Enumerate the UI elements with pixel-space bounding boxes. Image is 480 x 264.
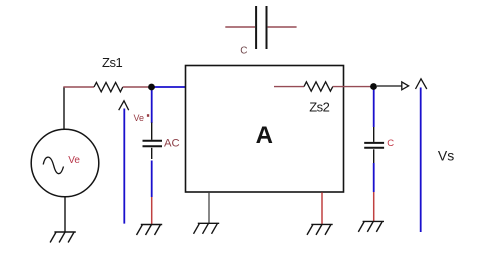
op-amp block A: [186, 66, 344, 193]
sine wave inside source: [43, 157, 63, 174]
ground (below capacitor AC): [137, 225, 163, 236]
ground (amplifier right): [307, 224, 333, 235]
ground (amplifier left): [194, 223, 220, 234]
node output junction dot: [370, 83, 377, 90]
resistor Zs2: [304, 82, 333, 91]
wire AC to ground lower segment (red): [151, 197, 153, 225]
wire output node down to capacitor c (blue): [373, 87, 375, 127]
label Ve': [134, 113, 150, 123]
svg-text:Ve: Ve: [68, 155, 80, 166]
wire top capacitor left lead: [225, 26, 255, 28]
capacitor C top plates: [256, 6, 266, 49]
wire node down to capacitor AC (blue): [151, 87, 153, 123]
svg-text:AC: AC: [164, 137, 180, 149]
wire capacitor c to ground upper segment (blue): [373, 163, 375, 192]
svg-text:C: C: [387, 138, 394, 149]
wire source vertical to Zs1 level: [63, 87, 65, 130]
ground (below capacitor c): [358, 221, 384, 232]
svg-text:Zs1: Zs1: [102, 55, 122, 70]
voltage source Ve circle: [31, 129, 99, 197]
wire node to amplifier input (blue): [152, 86, 186, 88]
capacitor c upper lead (black): [373, 127, 375, 142]
wire source to Zs1: [63, 86, 94, 88]
resistor Zs1: [94, 82, 123, 91]
capacitor c lower lead (black): [373, 149, 375, 163]
wire top capacitor right lead: [268, 26, 297, 28]
wire amplifier bottom right to ground (red): [321, 192, 323, 224]
wire AC to ground upper segment (blue): [151, 161, 153, 198]
wire amplifier output to Zs2: [274, 86, 304, 88]
wire source bottom to ground: [64, 197, 66, 232]
capacitor c plates: [364, 143, 384, 148]
wire output node to arrow (black): [377, 85, 402, 87]
svg-text:A: A: [256, 122, 273, 149]
svg-text:Zs2: Zs2: [309, 99, 329, 114]
capacitor AC upper lead (black): [151, 123, 153, 140]
open arrowhead (output, pointing right): [402, 82, 409, 90]
svg-text:Ve: Ve: [134, 113, 145, 123]
wire Zs1 to node: [123, 86, 151, 88]
capacitor AC plates: [143, 141, 163, 147]
arrow Vs (black caret head, blue shaft): [416, 79, 427, 232]
arrow Ve' (black caret head, blue shaft): [119, 101, 129, 224]
node input junction dot: [148, 84, 155, 91]
svg-text:C: C: [240, 46, 247, 57]
ground (below source): [50, 232, 76, 243]
wire Zs2 to output node: [333, 86, 373, 88]
svg-text:Vs: Vs: [438, 148, 454, 164]
capacitor AC lower lead (black): [151, 148, 153, 159]
wire capacitor c to ground lower segment (red): [373, 192, 375, 221]
wire amplifier bottom left to ground: [208, 192, 210, 223]
